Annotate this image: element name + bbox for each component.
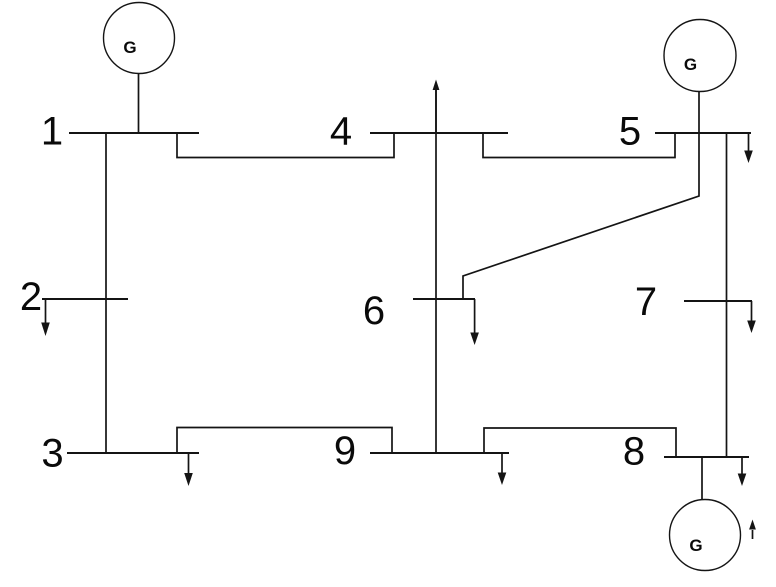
wire line 4-5 (483, 133, 675, 158)
arrowhead load bus 2 (41, 323, 50, 337)
svg-text:7: 7 (635, 280, 657, 324)
arrowhead load bus 7 (747, 321, 756, 334)
svg-text:9: 9 (334, 429, 356, 473)
wire line 9-8 (484, 428, 676, 457)
svg-text:G: G (684, 55, 697, 74)
load arrow bus 2 (45, 299, 47, 324)
bus 7 (684, 300, 752, 302)
wire G3 to bus 8 (701, 457, 703, 500)
load arrow bus 9 (501, 453, 503, 473)
bus 6 (413, 298, 475, 300)
svg-text:3: 3 (41, 432, 63, 476)
generator G1 (104, 3, 175, 74)
wire line 1-4 (177, 133, 394, 158)
bus 4 (370, 132, 508, 134)
bus 1 (69, 132, 199, 134)
wire line 1-2-3 (105, 133, 107, 453)
bus 2 (42, 298, 128, 300)
generation arrow near G3 (752, 530, 754, 539)
svg-text:5: 5 (619, 110, 641, 154)
svg-text:4: 4 (330, 110, 352, 154)
load arrow bus 7 (751, 301, 753, 321)
load arrow bus 3 (188, 453, 190, 474)
svg-text:6: 6 (363, 289, 385, 333)
bus 9 (370, 452, 509, 454)
wire G1 to bus 1 (138, 74, 140, 134)
svg-text:1: 1 (41, 110, 63, 154)
generator G3 (bus 8) (670, 500, 741, 571)
load arrow bus 6 (474, 299, 476, 333)
arrowhead load bus 9 (498, 473, 507, 486)
wire line 3-9 (177, 428, 392, 454)
wire line 5-7-8 (726, 133, 728, 457)
svg-text:8: 8 (623, 430, 645, 474)
arrowhead load bus 3 (184, 473, 193, 486)
wire vertical 4-6-9 (435, 89, 437, 453)
arrowhead up near G3 (749, 520, 756, 530)
bus 3 (67, 452, 199, 454)
wire G2 through bus 5 to bus 6 (diagonal) (463, 92, 699, 300)
generator G2 (bus 5) (664, 20, 736, 92)
load arrow bus 5 (748, 133, 750, 152)
bus 5 (655, 132, 751, 134)
svg-text:G: G (689, 536, 702, 555)
injection arrow above bus 4 (435, 89, 437, 133)
arrowhead up above bus 4 (433, 80, 440, 91)
arrowhead load bus 8 (738, 474, 747, 487)
svg-text:2: 2 (20, 275, 42, 319)
bus 8 (664, 456, 749, 458)
arrowhead load bus 5 (744, 151, 753, 164)
svg-text:G: G (123, 38, 136, 57)
arrowhead load bus 6 (470, 333, 479, 346)
load arrow bus 8 (741, 457, 743, 475)
